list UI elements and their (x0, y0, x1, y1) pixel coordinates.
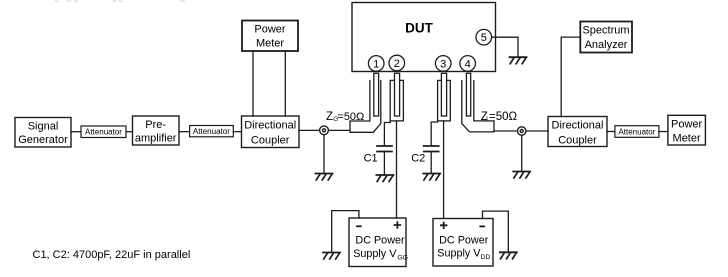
ground: below node J1 (316, 174, 333, 181)
ground: VDD minus (500, 252, 517, 258)
wire: VGG minus to ground (332, 211, 359, 252)
wire: signal generator to attenuator A1 (71, 131, 81, 133)
svg-text:Supply V: Supply V (353, 248, 397, 260)
svg-text:Power: Power (671, 119, 703, 131)
box: power meter 1 (242, 21, 298, 52)
ground: below C2 (423, 174, 440, 181)
svg-text:DD: DD (481, 254, 491, 261)
wire: pin 3 to DC supply VDD plus terminal (443, 121, 445, 218)
svg-text:Power: Power (254, 24, 286, 36)
wire: coupler 1 to input node (299, 129, 350, 131)
wire: coupler 1 reflected port to power meter 1 (284, 51, 286, 116)
pin 4 (460, 56, 476, 72)
box: spectrum analyzer (580, 22, 632, 53)
pin 3 lead (441, 73, 446, 116)
pin 4 lead (466, 73, 470, 116)
box: power meter 2 (668, 115, 706, 145)
box: attenuator A3 (615, 126, 659, 138)
ground: below node J2 (513, 172, 530, 179)
svg-text:Supply V: Supply V (437, 247, 481, 259)
wire: node J2 to ground (521, 135, 523, 171)
wire: TL3 to capacitor C2 (431, 121, 437, 146)
wire: attenuator A1 to pre-amplifier (126, 131, 133, 133)
svg-text:Attenuator: Attenuator (85, 128, 122, 137)
cropped title descenders (56, 1, 185, 3)
pin 5 (476, 29, 492, 45)
svg-text:Generator: Generator (18, 134, 68, 146)
svg-text:1: 1 (373, 58, 379, 70)
svg-text:5: 5 (481, 32, 487, 44)
box: pre-amplifier (133, 116, 180, 145)
svg-text:Analyzer: Analyzer (585, 39, 628, 51)
svg-text:Meter: Meter (673, 133, 701, 145)
transmission line TL3: pin 3 bias stub (438, 80, 451, 121)
pin 1 (368, 56, 384, 72)
svg-text:Directional: Directional (552, 120, 604, 132)
box: directional coupler 2 (548, 117, 607, 147)
svg-text:Z: Z (326, 111, 333, 123)
svg-text:DUT: DUT (405, 21, 433, 36)
box: directional coupler 1 (242, 116, 300, 148)
svg-text:Coupler: Coupler (558, 135, 597, 147)
capacitor C1 (377, 146, 392, 152)
wire: coupler 2 to attenuator A3 (607, 131, 615, 133)
svg-text:4: 4 (465, 58, 471, 70)
svg-text:Attenuator: Attenuator (618, 128, 655, 137)
pin 1 lead (374, 73, 379, 116)
wire: attenuator A2 to directional coupler 1 (233, 131, 241, 133)
ground: VGG minus (323, 253, 340, 260)
capacitor C2 (424, 146, 439, 152)
wire: pre-amplifier to attenuator A2 (179, 131, 190, 133)
wire: TL4 to node J2 (494, 130, 548, 132)
box: signal generator (15, 118, 71, 148)
svg-text:Pre-: Pre- (145, 119, 166, 131)
wire: C2 to ground (430, 152, 432, 174)
box: DC power supply VDD (433, 219, 493, 267)
wire: TL2 to capacitor C1 (384, 121, 390, 146)
svg-text:2: 2 (394, 58, 400, 70)
wire: C1 to ground (383, 152, 385, 176)
ground: below C1 (376, 175, 393, 182)
ground: pin 5 (510, 57, 527, 64)
svg-text:Attenuator: Attenuator (193, 127, 230, 136)
wire: attenuator A3 to power meter 2 (659, 131, 668, 133)
pin 2 (389, 55, 405, 71)
transmission line TL4: bend from pin 4 to node J2 (462, 81, 494, 132)
minus terminal VGG (357, 225, 361, 227)
svg-text:GG: GG (397, 254, 408, 261)
svg-text:Coupler: Coupler (251, 135, 290, 147)
box: attenuator A2 (190, 126, 234, 137)
wire: node J1 to ground (323, 135, 325, 174)
svg-text:amplifier: amplifier (135, 133, 177, 145)
svg-text:Directional: Directional (244, 120, 296, 132)
wire: pin 2 to DC supply VGG plus terminal (396, 121, 398, 218)
plus terminal VGG (395, 222, 401, 228)
svg-text:DC Power: DC Power (355, 235, 405, 247)
wire: pin 5 to ground (492, 37, 519, 57)
node: input connector J1 (circle-dot) (320, 126, 329, 135)
svg-text:C1: C1 (364, 153, 378, 165)
svg-text:3: 3 (440, 58, 446, 70)
svg-text:DC Power: DC Power (439, 234, 489, 246)
pin 3 (435, 56, 451, 72)
transmission line TL2: pin 2 bias stub (390, 80, 403, 121)
transmission line TL1: bend from node J1 to pin 1 (350, 81, 381, 133)
svg-text:Meter: Meter (256, 38, 284, 50)
wire: coupler 2 to spectrum analyzer (561, 37, 580, 116)
wire: VDD minus to ground (483, 211, 509, 251)
svg-text:C2: C2 (411, 153, 425, 165)
box: DUT (352, 3, 496, 72)
wire: coupler 1 forward port to power meter 1 (252, 51, 254, 116)
svg-text:Spectrum: Spectrum (582, 25, 629, 37)
svg-text:Signal: Signal (28, 121, 59, 133)
box: attenuator A1 (81, 126, 126, 138)
node: output connector J2 (circle-dot) (518, 127, 526, 135)
svg-text:C1, C2: 4700pF, 22uF in parall: C1, C2: 4700pF, 22uF in parallel (33, 249, 191, 261)
svg-text:=50Ω: =50Ω (489, 111, 518, 123)
minus terminal VDD (480, 225, 484, 227)
box: DC power supply VGG (349, 218, 406, 267)
plus terminal VDD (441, 223, 447, 229)
pin 2 lead (395, 73, 400, 116)
